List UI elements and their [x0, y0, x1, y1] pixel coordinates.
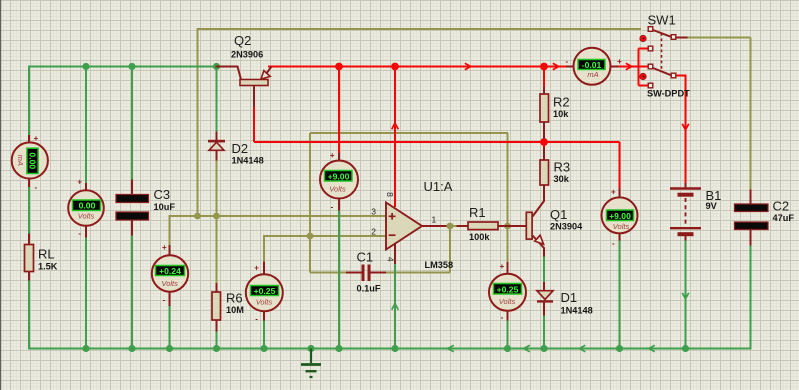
arrow: right arrow on supply wire x=468: [465, 63, 471, 70]
svg-text:C1: C1: [357, 249, 374, 264]
wire: +0.25V left meter bottom lead: [263, 311, 265, 321]
wire: +0.25V right meter bottom (x=507.5): [507, 320, 509, 349]
value 10k: [553, 109, 569, 119]
wire: +0.24V meter bottom (x=169.5): [169, 306, 171, 349]
wire: C3 top (x=132): [131, 66, 133, 181]
transistor Q2 (2N3906 PNP) body bar: [240, 80, 268, 86]
wire: +0.24V meter top lead: [169, 245, 171, 256]
wire: C1 left lead: [346, 272, 362, 274]
wire: drop to +9.00V right meter (x=619.5): [619, 142, 621, 189]
arrow: rail left arrow x=651.5: [649, 345, 655, 352]
value 9V: [706, 201, 718, 211]
wire: Q2 collector vertical red segment (x=254): [253, 106, 255, 142]
node: C3 top junction: [128, 63, 135, 70]
svg-text:+: +: [254, 263, 259, 272]
wire: feedback to C1 left (y=272.5): [310, 272, 347, 274]
arrow: rail left arrow x=582: [579, 345, 585, 352]
wire: ground rail horizontal (y=348.5): [29, 348, 751, 350]
label R2: [553, 95, 570, 110]
wire: 0.00V meter top lead: [85, 183, 87, 191]
svg-text:10k: 10k: [553, 109, 569, 119]
wire: drop to +0.24V meter (x=169.5): [169, 215, 171, 246]
wire: R2 top lead: [543, 87, 545, 95]
label R1: [469, 205, 486, 220]
wire: R3 top lead: [543, 148, 545, 161]
wire: 0.00V meter top (x=86): [85, 66, 87, 184]
voltmeter 0.00V (x=86): [68, 178, 104, 238]
node: rail junction x=339: [335, 345, 342, 352]
value 100k: [469, 232, 490, 242]
wire: mA meter bottom lead: [28, 179, 30, 188]
svg-text:R3: R3: [554, 160, 571, 175]
svg-text:+: +: [77, 178, 82, 187]
node: R2/R3 junction (544,142): [540, 138, 548, 146]
node: R1 right / Q1 base junction: [504, 223, 511, 230]
node: rail junction at ground x=311: [307, 345, 314, 352]
wire: ammeter right lead: [611, 66, 619, 68]
wire: pin2 branch vertical (x=310, y=133..272.5): [309, 133, 311, 273]
capacitor C2 plates: [735, 204, 769, 230]
wire: +9.00V right meter bottom lead: [619, 233, 621, 241]
svg-text:-: -: [565, 57, 568, 66]
node: D2 top junction: [213, 63, 220, 70]
wire: red horizontal ammeter to switch (y=66.5, x=618..648): [618, 66, 648, 68]
wire: drop to +0.25V left meter (x=264): [263, 235, 265, 262]
wire: Q1 emitter green segment (x=544): [543, 256, 545, 283]
svg-text:Volts: Volts: [613, 222, 630, 231]
arrow: right arrow on supply wire x=556: [553, 63, 559, 70]
wire: R1 left lead: [457, 225, 469, 227]
switch SW1 red state indicator (upper): [640, 35, 646, 41]
svg-text:+: +: [162, 243, 167, 252]
wire: switch NC bracket vertical (x=638.5): [638, 49, 640, 86]
resistor R2 body: [540, 94, 549, 122]
wire: R1 right node vertical up (x=507.5, y=133..226): [507, 133, 509, 226]
voltmeter +9.00V left (x=339): [320, 151, 358, 211]
svg-text:SW1: SW1: [648, 13, 676, 28]
wire: R2 bottom lead: [543, 122, 545, 139]
svg-text:2N3906: 2N3906: [231, 49, 263, 59]
wire: C1 right to output corner (y=272.5, x=385.5..450): [386, 272, 451, 274]
wire: R6 bottom lead: [216, 320, 218, 332]
voltmeter +0.25V right (x=507.5): [489, 262, 526, 322]
svg-text:D2: D2: [232, 141, 249, 156]
svg-text:3: 3: [371, 206, 376, 216]
svg-text:Volts: Volts: [78, 212, 95, 221]
wire: olive left frame vertical (x=197.5, y=29..216): [197, 29, 199, 216]
wire: collector net horizontal (y=142, x=254..619.5): [254, 141, 620, 143]
wire: C2 bottom (x=750.5): [750, 245, 752, 350]
diode D1 (1N4148): [537, 291, 553, 303]
pin 4 label (rotated): [386, 257, 396, 262]
svg-text:-: -: [163, 296, 166, 305]
pin 3 label: [371, 206, 376, 216]
wire: +9.00V left meter bottom lead: [338, 198, 340, 211]
node: rail junction x=395: [391, 345, 398, 352]
resistor R1 body: [468, 222, 498, 230]
svg-text:-: -: [78, 229, 81, 238]
ammeter right (mA, reads -0.01): [565, 48, 622, 85]
svg-text:+: +: [500, 262, 505, 271]
wire: mA meter to RL (x=29): [28, 187, 30, 235]
wire: RL bottom to ground rail (x=29): [28, 280, 30, 350]
wire: +9.00V right meter bottom (x=619.5): [619, 240, 621, 349]
wire: +0.25V right meter bottom lead: [507, 310, 509, 321]
svg-text:0.00: 0.00: [79, 201, 96, 211]
transistor Q2 emitter arrow (points to base): [261, 71, 270, 80]
wire: Q2 base lead: [216, 67, 242, 80]
wire: R2 top (x=544, y=66.5..87.5): [543, 67, 545, 88]
node: pin3/left-frame junction: [194, 213, 201, 220]
arrow: down arrow on battery top wire: [682, 124, 689, 130]
value 2N3904: [550, 222, 583, 232]
diode D2 (1N4148): [208, 140, 225, 151]
value 1N4148 (D2): [232, 156, 264, 166]
svg-text:C3: C3: [154, 187, 171, 202]
wire: op-amp output olive stub (y=226): [446, 225, 457, 227]
svg-text:U1:A: U1:A: [424, 179, 453, 194]
resistor RL body: [25, 245, 34, 272]
label Q1: [550, 207, 567, 222]
svg-text:R6: R6: [226, 291, 243, 306]
wire: Q2 collector lead: [253, 86, 255, 107]
svg-text:Q2: Q2: [234, 33, 251, 48]
wire: C2 top lead: [750, 190, 752, 205]
value 30k: [554, 174, 570, 184]
value 1.5K: [38, 262, 58, 272]
svg-text:+: +: [34, 134, 39, 143]
svg-text:-: -: [34, 183, 37, 192]
wire: +9.00V right meter top lead: [619, 189, 621, 199]
wire: C3 top lead: [131, 180, 133, 196]
svg-text:10uF: 10uF: [154, 202, 176, 212]
svg-text:+0.24: +0.24: [159, 266, 181, 276]
wire: D1 cathode to rail (x=544): [543, 315, 545, 349]
svg-text:2: 2: [371, 226, 376, 236]
pin 2 label: [371, 226, 376, 236]
wire: D2 cathode up (x=216.5): [216, 66, 218, 133]
svg-text:D1: D1: [561, 290, 578, 305]
node: pin3/D2-R6 junction: [213, 213, 220, 220]
svg-text:+0.25: +0.25: [254, 286, 276, 296]
voltmeter +9.00V right (x=619.5): [602, 187, 638, 248]
wire: C3 bottom (x=132): [131, 235, 133, 349]
node: rail junction x=86: [82, 345, 89, 352]
value 10uF: [154, 202, 176, 212]
wire: Q2 emitter diagonal: [262, 67, 272, 80]
value 1N4148 (D1): [561, 306, 593, 316]
wire: +0.25V right meter top lead: [507, 262, 509, 274]
wire: C1 right lead: [371, 272, 387, 274]
svg-text:2N3904: 2N3904: [550, 222, 583, 232]
label U1:A: [424, 179, 453, 194]
arrow: up arrow on pin8 wire: [392, 123, 399, 129]
arrow: rail left arrow x=526.5: [524, 345, 530, 352]
value 47uF: [773, 213, 795, 223]
resistor R3 body: [540, 160, 549, 185]
arrow: rail left arrow x=450.5: [448, 345, 454, 352]
wire: op-amp pin4 to rail (x=395): [394, 264, 396, 349]
node: rail junction x=685.5: [682, 345, 689, 352]
wire: +0.24V meter bottom lead: [169, 291, 171, 306]
pin 1 label: [432, 215, 437, 225]
wire: op-amp output lead: [422, 225, 447, 227]
voltmeter +0.24V (x=169.5): [152, 243, 188, 305]
wire: ammeter left lead: [566, 66, 574, 68]
value LM358: [425, 260, 454, 270]
wire: feedback top horizontal (y=133, x=310..508): [310, 132, 508, 134]
wire: main red supply horizontal (y=66.5, x=268..566.5): [268, 66, 567, 68]
node: 0.00V meter top junction: [82, 63, 89, 70]
svg-text:-0.01: -0.01: [582, 60, 602, 70]
wire: R3 bottom lead to Q1 collector: [533, 185, 545, 217]
node: supply junction x=339: [335, 63, 343, 71]
wire: +0.25V left meter bottom (x=264): [263, 320, 265, 349]
svg-text:RL: RL: [38, 247, 55, 262]
svg-text:100k: 100k: [469, 232, 490, 242]
svg-text:+: +: [617, 57, 622, 66]
wire: R1 right lead to Q1 base: [498, 225, 527, 227]
wire: RL bottom lead: [28, 271, 30, 281]
wire: 0.00V meter bottom lead: [85, 225, 87, 238]
wire: green top-left horizontal (y=66.5, x=29..216.5): [29, 66, 217, 68]
wire: SW1 throw1 stub: [676, 37, 688, 39]
svg-text:-: -: [331, 202, 334, 211]
svg-text:8: 8: [385, 192, 395, 197]
switch SW1 red state indicator (lower): [640, 73, 646, 79]
node: rail junction x=216.5: [213, 345, 220, 352]
wire: +9.00V left meter bottom (x=339): [338, 210, 340, 349]
svg-text:1N4148: 1N4148: [232, 156, 264, 166]
wire: 0.00V meter bottom (x=86): [85, 237, 87, 349]
node: rail junction x=264: [260, 345, 267, 352]
wire: +9.00V left meter top lead: [338, 153, 340, 162]
svg-text:R1: R1: [469, 205, 486, 220]
svg-text:SW-DPDT: SW-DPDT: [647, 89, 690, 99]
wire: op-amp pin4 lead: [394, 244, 396, 265]
svg-text:1.5K: 1.5K: [38, 262, 58, 272]
node: pin2/feedback junction: [307, 233, 314, 240]
svg-text:C2: C2: [773, 198, 790, 213]
value SW-DPDT: [647, 89, 690, 99]
wire: SW1 throw1 to right frame (y=37.5): [687, 37, 751, 39]
battery B1 (9V): [670, 189, 701, 235]
wire: left column top (x=29, y=66.5..135): [28, 66, 30, 136]
svg-text:+: +: [611, 187, 616, 196]
node: rail junction x=544: [540, 345, 547, 352]
svg-text:-: -: [255, 314, 258, 323]
label R6: [226, 291, 243, 306]
node: op-amp output junction: [447, 223, 454, 230]
arrow: down arrow on battery bottom wire: [682, 293, 689, 299]
svg-text:9V: 9V: [706, 201, 718, 211]
wire: C2 bottom lead: [750, 229, 752, 246]
wire: D2 cathode lead: [216, 132, 218, 141]
svg-text:-: -: [612, 239, 615, 248]
svg-text:Volts: Volts: [329, 184, 346, 193]
wire: R3 top red segment: [543, 142, 545, 148]
wire: battery bottom to rail (x=685.5): [685, 240, 687, 349]
wire: op-amp pin2 net horizontal (y=236): [264, 235, 386, 237]
ground: [301, 349, 321, 378]
svg-text:Volts: Volts: [161, 279, 178, 288]
svg-text:47uF: 47uF: [773, 213, 795, 223]
label R3: [554, 160, 571, 175]
wire: battery bottom lead: [685, 235, 687, 241]
node: supply junction x=395: [391, 63, 399, 71]
wire: +9.00V left meter top (x=339, y=66.5..153.5): [338, 67, 340, 154]
svg-text:+9.00: +9.00: [609, 211, 631, 221]
svg-text:10M: 10M: [226, 305, 244, 315]
wire: R2 bottom red segment to junction: [543, 138, 545, 142]
wire: Q1 emitter to D1 anode lead: [543, 282, 545, 291]
wire: battery top lead: [685, 183, 687, 188]
node: supply junction x=544 (R2 top): [540, 63, 548, 71]
capacitor C1 plates: [362, 265, 371, 282]
voltmeter +0.25V left (x=264): [246, 263, 283, 323]
wire: D2 anode to R6 top column (x=216.5): [216, 160, 218, 284]
svg-text:1: 1: [432, 215, 437, 225]
value 0.1uF: [357, 284, 381, 294]
svg-text:LM358: LM358: [425, 260, 454, 270]
wire: +0.25V left meter top lead: [263, 262, 265, 275]
node: rail junction x=169.5: [166, 345, 173, 352]
wire: bracket stub to SW1 lower NC terminal: [639, 85, 649, 87]
svg-text:0.00: 0.00: [27, 152, 37, 169]
wire: D1 cathode lead: [543, 302, 545, 316]
wire: Q1 emitter diagonal: [533, 236, 545, 257]
label D2: [232, 141, 249, 156]
transistor Q1 (2N3904 NPN) body bar: [526, 212, 532, 239]
svg-text:4: 4: [386, 257, 396, 262]
resistor R6 body: [212, 292, 221, 320]
node: rail junction x=619.5: [616, 345, 623, 352]
label C3: [154, 187, 171, 202]
op-amp U1:A triangle: [386, 203, 422, 250]
arrow: right arrow on supply wire x=629: [626, 63, 632, 70]
node: rail junction x=507.5: [504, 345, 511, 352]
svg-text:30k: 30k: [554, 174, 570, 184]
label RL: [38, 247, 55, 262]
wire: D2 anode lead: [216, 151, 218, 161]
label C2: [773, 198, 790, 213]
svg-text:0.1uF: 0.1uF: [357, 284, 381, 294]
label B1: [706, 188, 722, 203]
svg-text:+9.00: +9.00: [328, 171, 350, 181]
label C1: [357, 249, 374, 264]
svg-text:1N4148: 1N4148: [561, 306, 593, 316]
wire: R6 bottom (x=216.5): [216, 331, 218, 349]
wire: olive top horizontal (y=29, x=197.5..641) to SW1 pole: [197, 28, 642, 30]
arrow: up arrow on pin4 wire: [392, 304, 399, 310]
svg-text:Volts: Volts: [256, 298, 273, 307]
wire: mA meter top lead: [28, 135, 30, 143]
wire: output corner vertical (x=450, y=226..272.5): [449, 226, 451, 273]
wire: right frame vertical to C2 (x=750.5): [750, 38, 752, 191]
wire: RL top lead: [28, 234, 30, 246]
label D1: [561, 290, 578, 305]
transistor Q1 emitter arrow (points out): [535, 235, 544, 244]
label Q2: [234, 33, 251, 48]
wire: op-amp pin3 net horizontal (y=216): [170, 215, 387, 217]
wire: C3 bottom lead: [131, 220, 133, 236]
value 2N3906: [231, 49, 263, 59]
capacitor C3 plates: [116, 195, 149, 221]
wire: bracket stub to SW1 upper NC terminal: [639, 48, 649, 50]
value 10M: [226, 305, 244, 315]
ammeter left (mA, reads 0.00): [12, 134, 48, 192]
svg-text:R2: R2: [553, 95, 570, 110]
svg-text:mA: mA: [587, 70, 598, 79]
wire: R6 top lead: [216, 283, 218, 293]
switch SW1 (SW-DPDT): [648, 27, 676, 88]
pin 8 label (rotated): [385, 192, 395, 197]
svg-text:Volts: Volts: [499, 297, 516, 306]
svg-text:-: -: [501, 313, 504, 322]
wire: SW1 throw2 to battery top (x=685.5): [676, 76, 686, 184]
svg-text:mA: mA: [16, 155, 25, 166]
wire: R1 right node down to +0.25V meter (x=507.5): [507, 226, 509, 263]
svg-text:+0.25: +0.25: [497, 284, 519, 294]
label SW1: [648, 13, 676, 28]
wire: op-amp pin8 supply vertical (x=395, y=66.5..207): [394, 67, 396, 208]
node: rail junction x=132: [128, 345, 135, 352]
svg-text:+: +: [330, 151, 335, 160]
svg-text:Q1: Q1: [550, 207, 567, 222]
